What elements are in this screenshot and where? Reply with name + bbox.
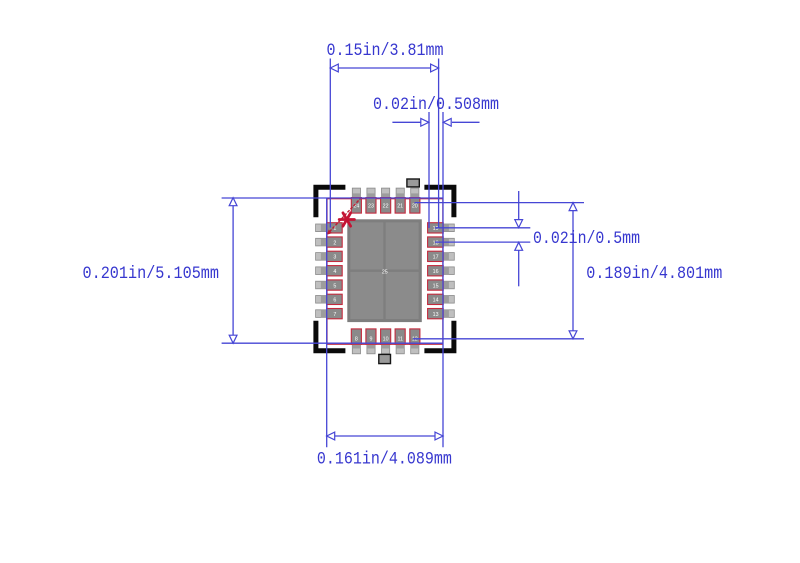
svg-text:2: 2 — [333, 240, 336, 246]
svg-text:10: 10 — [383, 336, 389, 342]
pin 21 mask pad — [396, 188, 404, 198]
pin 14 mask pad — [443, 296, 454, 304]
svg-text:4: 4 — [333, 269, 336, 275]
dim 0.508 right leader — [452, 121, 480, 123]
svg-text:0.02in/0.508mm: 0.02in/0.508mm — [373, 95, 499, 115]
pin 22 mask pad — [382, 188, 390, 198]
pin 15 pad overlap — [443, 281, 449, 289]
dim 0.189 bottom reference line — [413, 338, 584, 340]
svg-text:18: 18 — [433, 240, 439, 246]
top orientation tab — [407, 179, 419, 187]
dim 0.5mm lower leader — [518, 250, 520, 286]
pin 13 mask pad — [443, 310, 454, 318]
pin 5 pad overlap — [321, 281, 327, 289]
pin 17 mask pad — [443, 253, 454, 261]
pin 16 pad overlap — [443, 267, 449, 275]
pad 7 — [327, 309, 343, 319]
pad 14 — [428, 294, 444, 304]
dim 0.15in left extension line — [329, 59, 331, 228]
dim 0.5mm upper arrow — [515, 220, 523, 228]
pad 21 — [395, 198, 405, 214]
svg-text:0.189in/4.801mm: 0.189in/4.801mm — [586, 264, 722, 284]
pin 23 pad overlap — [367, 193, 375, 198]
pin 19 pad overlap — [443, 224, 449, 232]
pad 5 — [327, 280, 343, 290]
pin 5 mask pad — [316, 281, 327, 289]
dim 0.5mm upper reference line — [435, 227, 530, 229]
pad 6 — [327, 294, 343, 304]
svg-text:20: 20 — [412, 204, 418, 210]
svg-text:3: 3 — [333, 255, 336, 261]
pin 7 mask pad — [316, 310, 327, 318]
svg-text:16: 16 — [433, 269, 439, 275]
paste quadrant BL — [350, 272, 383, 319]
pad 1 — [327, 223, 343, 233]
pin 19 mask pad — [443, 224, 454, 232]
pin 4 pad overlap — [321, 267, 327, 275]
svg-text:0.161in/4.089mm: 0.161in/4.089mm — [317, 450, 452, 470]
dim 0.201 bottom reference line — [222, 342, 443, 344]
courtyard bracket top-left — [313, 185, 345, 217]
pad 24 — [351, 198, 361, 214]
dim 0.15in dimension line — [339, 67, 431, 69]
pin 15 mask pad — [443, 281, 454, 289]
dim 0.189 top reference line — [415, 202, 585, 204]
dim 0.161 right arrow — [435, 432, 443, 440]
pad 11 — [395, 329, 405, 344]
package body outline — [327, 199, 443, 345]
pin 6 pad overlap — [321, 296, 327, 304]
paste quadrant BR — [386, 272, 419, 319]
svg-text:11: 11 — [397, 336, 403, 342]
dim 0.5mm lower reference line — [435, 241, 530, 243]
svg-text:14: 14 — [433, 298, 439, 304]
dim 0.161 dimension line — [335, 435, 435, 437]
courtyard bracket top-right — [424, 185, 456, 217]
dim 0.15in right arrow — [431, 64, 439, 72]
dim 0.201 bottom arrow — [229, 335, 237, 343]
pin 20 mask pad — [411, 188, 419, 198]
dim 0.508 left extension line — [428, 112, 430, 228]
pad 20 — [410, 198, 420, 214]
svg-text:9: 9 — [370, 336, 373, 342]
dim 0.508 right arrow — [443, 118, 451, 126]
dim 0.508 right extension / bottom dim right extension — [442, 112, 444, 447]
pin 3 mask pad — [316, 253, 327, 261]
svg-text:6: 6 — [333, 298, 336, 304]
pin 10 mask pad — [382, 344, 390, 354]
svg-text:25: 25 — [382, 270, 388, 276]
pin 21 pad overlap — [396, 193, 404, 198]
pin-1 asterisk — [339, 213, 354, 226]
bottom orientation tab — [379, 354, 391, 363]
svg-text:22: 22 — [383, 204, 389, 210]
dim 0.15in left arrow — [330, 64, 338, 72]
svg-text:0.201in/5.105mm: 0.201in/5.105mm — [83, 264, 220, 284]
pin 8 mask pad — [352, 344, 360, 354]
pin 13 pad overlap — [443, 310, 449, 318]
dim 0.189 dimension line — [572, 211, 574, 331]
dim 0.189 bottom arrow — [569, 331, 577, 339]
svg-text:21: 21 — [397, 204, 403, 210]
pin 20 pad overlap — [411, 193, 419, 198]
svg-text:8: 8 — [355, 336, 358, 342]
pad 23 — [366, 198, 376, 214]
svg-text:23: 23 — [368, 204, 374, 210]
dim 0.201 top reference line — [222, 197, 443, 199]
pin 3 pad overlap — [321, 253, 327, 261]
pin 8 pad overlap — [352, 344, 360, 348]
dim 0.161 left arrow — [327, 432, 335, 440]
pin-1 diagonal end arrowhead — [327, 229, 332, 234]
pad 3 — [327, 251, 343, 261]
dim 0.15in right extension line — [438, 59, 440, 229]
paste quadrant TL — [350, 222, 383, 269]
pin 10 pad overlap — [382, 344, 390, 348]
dim 0.508 left arrow — [421, 118, 429, 126]
dim 0.5mm upper leader — [518, 191, 520, 220]
pin 4 mask pad — [316, 267, 327, 275]
dim 0.161 left extension line — [326, 198, 328, 447]
pin 2 pad overlap — [321, 238, 327, 246]
pin 18 mask pad — [443, 238, 454, 246]
svg-text:0.02in/0.5mm: 0.02in/0.5mm — [533, 229, 640, 249]
pin 1 mask pad — [316, 224, 327, 232]
pin 11 mask pad — [396, 344, 404, 354]
pad 12 — [410, 329, 420, 344]
pin 23 mask pad — [367, 188, 375, 198]
pin-1 diagonal silk line — [328, 197, 362, 234]
pad 8 — [351, 329, 361, 344]
dim 0.189 top arrow — [569, 203, 577, 211]
pin 24 mask pad — [352, 188, 360, 198]
paste quadrant TR — [386, 222, 419, 269]
pad 19 — [428, 223, 444, 233]
pin 12 mask pad — [411, 344, 419, 354]
pin 7 pad overlap — [321, 310, 327, 318]
pin 14 pad overlap — [443, 296, 449, 304]
pin 2 mask pad — [316, 238, 327, 246]
pad 13 — [428, 309, 444, 319]
pad 10 — [381, 329, 391, 344]
pin 17 pad overlap — [443, 253, 449, 261]
pin 12 pad overlap — [411, 344, 419, 348]
courtyard bracket bottom-left — [313, 321, 345, 353]
pad 22 — [381, 198, 391, 214]
svg-text:17: 17 — [433, 255, 439, 261]
thermal pad EP base — [347, 219, 422, 322]
pad 18 — [428, 237, 444, 247]
svg-text:15: 15 — [433, 283, 439, 289]
pad 2 — [327, 237, 343, 247]
pad 16 — [428, 266, 444, 276]
svg-text:0.15in/3.81mm: 0.15in/3.81mm — [327, 41, 444, 61]
svg-text:13: 13 — [433, 312, 439, 318]
pin 24 pad overlap — [352, 193, 360, 198]
pin 9 pad overlap — [367, 344, 375, 348]
pin 22 pad overlap — [382, 193, 390, 198]
dim 0.5mm lower arrow — [515, 242, 523, 250]
pin 6 mask pad — [316, 296, 327, 304]
pin 1 pad overlap — [321, 224, 327, 232]
pin 16 mask pad — [443, 267, 454, 275]
pin 9 mask pad — [367, 344, 375, 354]
pad 4 — [327, 266, 343, 276]
pad 9 — [366, 329, 376, 344]
svg-text:7: 7 — [333, 312, 336, 318]
pad 17 — [428, 251, 444, 261]
dim 0.201 top arrow — [229, 198, 237, 206]
pad 15 — [428, 280, 444, 290]
svg-text:5: 5 — [333, 283, 336, 289]
dim 0.508 left leader — [392, 121, 421, 123]
pin 18 pad overlap — [443, 238, 449, 246]
courtyard bracket bottom-right — [424, 321, 456, 353]
svg-text:19: 19 — [433, 226, 439, 232]
dim 0.201 dimension line — [232, 206, 234, 335]
pin 11 pad overlap — [396, 344, 404, 348]
